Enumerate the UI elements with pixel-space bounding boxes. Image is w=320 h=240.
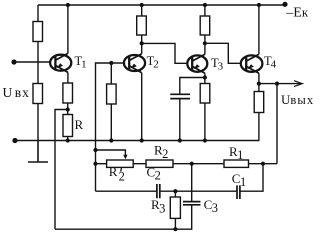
output arrowhead — [294, 81, 302, 87]
resistor (T2 collector) — [137, 16, 147, 35]
node: R3 tap — [173, 189, 177, 193]
T2 emitter arrow (PNP) — [131, 64, 137, 69]
junction bypass cap / common — [178, 138, 182, 142]
transistor T4 — [241, 54, 263, 73]
wire: C3 down / bottom return line — [55, 205, 192, 229]
node: R1/C1 junction — [261, 162, 265, 166]
wire — [204, 103, 206, 141]
transistor T3 — [187, 54, 207, 73]
resistor (T3 emitter) — [200, 84, 210, 104]
wire: T4 collector to rail — [258, 5, 260, 54]
junction output / feedback — [275, 82, 279, 86]
wire: T2 collector to T3 base — [142, 43, 188, 63]
node: R2/R1 mid (C3 tap) — [190, 162, 194, 166]
wire: left column top from rail corner — [37, 5, 39, 22]
transistor T2 — [124, 54, 145, 73]
top supply rail — [38, 4, 285, 6]
input terminal upper — [11, 59, 16, 64]
wire: bypass cap branch — [180, 78, 205, 95]
resistor R3 — [170, 197, 180, 218]
capacitor (T3 bypass) plates — [170, 94, 190, 98]
wire: T3 emitter down — [204, 73, 206, 83]
wire: T2 emitter to common — [141, 73, 143, 141]
resistor (T1 emitter) — [63, 83, 73, 103]
junction on rail at T2 — [140, 3, 144, 7]
wire: T3 collector up — [204, 35, 206, 54]
wire — [258, 113, 260, 141]
junction R / common line — [66, 138, 70, 142]
resistor (T2 base divider) — [107, 84, 117, 104]
power terminal -Ek — [282, 2, 287, 7]
resistor R2 — [146, 160, 173, 167]
ground — [28, 141, 48, 163]
node: feedback column junction (arrow tap) — [93, 148, 97, 152]
wire — [110, 104, 112, 141]
T1 emitter arrow (PNP) — [57, 63, 63, 68]
wire: lower feedback line to C2 — [96, 190, 157, 192]
resistor R — [63, 115, 73, 137]
wire: C2 to C1 — [160, 190, 237, 192]
wire: bypass jog to left rail — [55, 110, 68, 230]
svg-text:–Eк: –Eк — [285, 5, 309, 21]
junction T2 collector node — [140, 41, 144, 45]
resistor (upper bias divider, input stage) — [33, 22, 43, 42]
input terminal lower — [12, 138, 17, 143]
junction T4 emitter / output — [257, 82, 261, 86]
transistor T1 — [50, 53, 71, 72]
junction on rail at T3 — [203, 3, 207, 7]
junction T3 emitter node — [203, 75, 207, 79]
wire — [179, 99, 181, 141]
capacitor C1 plates — [237, 185, 240, 199]
resistor (T4 emitter) — [254, 92, 264, 113]
svg-text:C1: C1 — [232, 171, 246, 189]
svg-text:R: R — [109, 164, 118, 179]
junction R3 / bottom line — [173, 227, 177, 231]
capacitor C2 plates — [157, 184, 160, 198]
resistor (T3 collector) — [200, 16, 210, 35]
wire: R bottom to common — [67, 137, 69, 141]
wire: T3 collector to T4 base — [205, 43, 241, 63]
wire — [67, 103, 69, 115]
junction T2 emitter / common — [140, 138, 144, 142]
svg-text:T3: T3 — [211, 56, 224, 73]
wire: output tap — [259, 83, 301, 85]
svg-text:T1: T1 — [75, 54, 87, 71]
wire: T4 emitter down — [258, 73, 260, 91]
node: T1 emitter network junction — [66, 107, 70, 111]
T3 emitter arrow (PNP) — [194, 64, 200, 69]
wire — [141, 5, 143, 16]
svg-text:R1: R1 — [229, 144, 243, 162]
svg-text:T2: T2 — [147, 54, 159, 71]
wire: T1 emitter down — [67, 72, 69, 83]
wire: input to T1 base — [14, 61, 50, 63]
junction T3 collector node — [203, 41, 207, 45]
wire: output down to feedback — [276, 84, 278, 164]
svg-text:T4: T4 — [264, 54, 277, 71]
wire — [173, 163, 224, 165]
T4 emitter arrow (PNP) — [248, 64, 254, 69]
wire: C1 up to R1 node — [240, 164, 263, 192]
svg-text:R2: R2 — [154, 143, 168, 161]
junction T3 emitter resistor / common — [203, 138, 207, 142]
junction on rail at T1 — [66, 3, 70, 7]
svg-text:2: 2 — [119, 169, 125, 183]
wire — [37, 104, 39, 141]
svg-text:U: U — [3, 85, 13, 100]
wire: C3 column from R2/R1 node — [191, 164, 193, 202]
junction T2 base / divider — [109, 61, 113, 65]
wire: common line — [15, 140, 259, 142]
svg-text:R3: R3 — [151, 197, 165, 215]
rheostat arrow over R2' — [96, 150, 126, 157]
capacitor C3 plates — [183, 202, 201, 205]
wire: T2 collector up — [141, 35, 143, 54]
wire — [249, 163, 278, 165]
wire — [204, 5, 206, 16]
resistor (lower bias divider, input stage) — [33, 84, 43, 104]
resistor R2' — [107, 160, 134, 167]
junction divider / common — [109, 138, 113, 142]
wire: T2 base to feedback column — [96, 63, 124, 191]
wire — [96, 163, 107, 165]
node: feedback column / R2' line — [93, 162, 97, 166]
wire: R3 down — [174, 191, 176, 197]
wire — [37, 42, 39, 84]
svg-text:C3: C3 — [204, 197, 218, 215]
resistor R1 — [224, 160, 249, 167]
wire — [174, 218, 176, 229]
svg-text:R: R — [75, 117, 84, 132]
wire divider down — [110, 63, 112, 84]
svg-text:Uвых: Uвых — [281, 92, 314, 107]
wire: T1 collector to rail — [67, 5, 69, 53]
wire — [133, 163, 146, 165]
junction on rail at T4 — [257, 3, 261, 7]
svg-text:вх: вх — [15, 85, 30, 100]
